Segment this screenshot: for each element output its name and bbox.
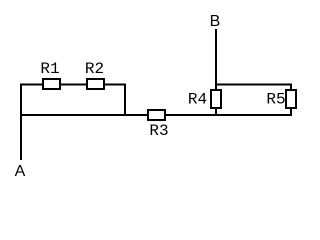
svg-text:B: B — [210, 13, 221, 30]
wire: R5 vertical — [290, 84, 292, 116]
resistor R5 — [286, 90, 296, 108]
svg-text:R4: R4 — [188, 91, 207, 109]
resistor R2 — [87, 79, 104, 89]
svg-text:R1: R1 — [40, 60, 59, 78]
resistor R3 — [148, 110, 165, 120]
svg-text:R3: R3 — [149, 122, 168, 140]
svg-text:R2: R2 — [85, 60, 104, 78]
wire: node B vertical — [215, 29, 217, 115]
wire: bottom rail — [20, 114, 292, 116]
wire: top right horizontal — [215, 84, 291, 86]
svg-text:A: A — [15, 163, 26, 180]
resistor R1 — [43, 79, 60, 89]
resistor R4 — [211, 90, 221, 108]
wire: A stub, left loop top wire, right vertical — [21, 85, 125, 161]
svg-text:R5: R5 — [266, 91, 285, 109]
